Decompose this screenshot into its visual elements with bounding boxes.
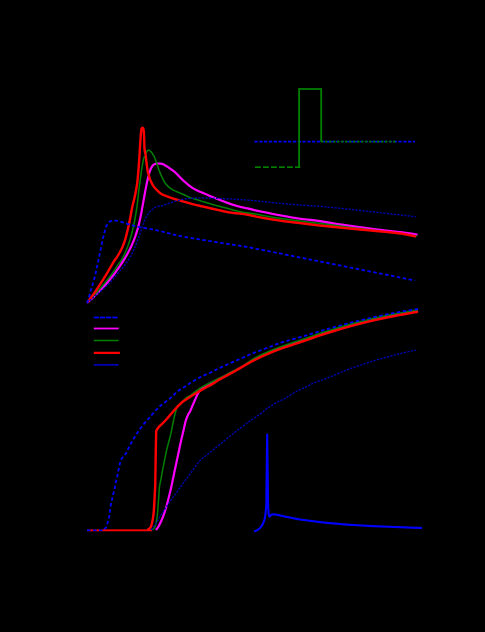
bottom inset blue voltage trace with spike bbox=[254, 435, 422, 532]
top panel thin dark-blue curve bbox=[87, 198, 416, 303]
bottom panel blue dashed curve bbox=[104, 309, 418, 529]
legend blue dashed sample bbox=[94, 317, 118, 319]
bottom panel green curve bbox=[153, 310, 419, 530]
top inset green current pulse bbox=[299, 89, 321, 167]
bottom panel thin dark-blue curve bbox=[151, 350, 416, 530]
legend red sample bbox=[94, 352, 120, 354]
bottom panel baseline blue dashes bbox=[87, 529, 105, 531]
top panel green curve bbox=[87, 150, 417, 303]
top panel magenta curve bbox=[87, 164, 418, 304]
top inset blue dashed holding line bbox=[255, 141, 416, 143]
top inset green dotted post-pulse line bbox=[321, 141, 396, 143]
legend magenta sample bbox=[94, 328, 119, 330]
legend dark-blue sample bbox=[94, 364, 119, 366]
top panel blue dashed curve bbox=[87, 221, 415, 304]
bottom panel red curve bbox=[148, 312, 419, 530]
top inset green dashed pre-pulse baseline bbox=[255, 166, 300, 168]
bottom panel magenta curve bbox=[156, 311, 418, 530]
top panel red curve with spike bbox=[87, 128, 416, 303]
bottom panel baseline (red) bbox=[87, 529, 152, 531]
legend green sample bbox=[94, 340, 119, 342]
